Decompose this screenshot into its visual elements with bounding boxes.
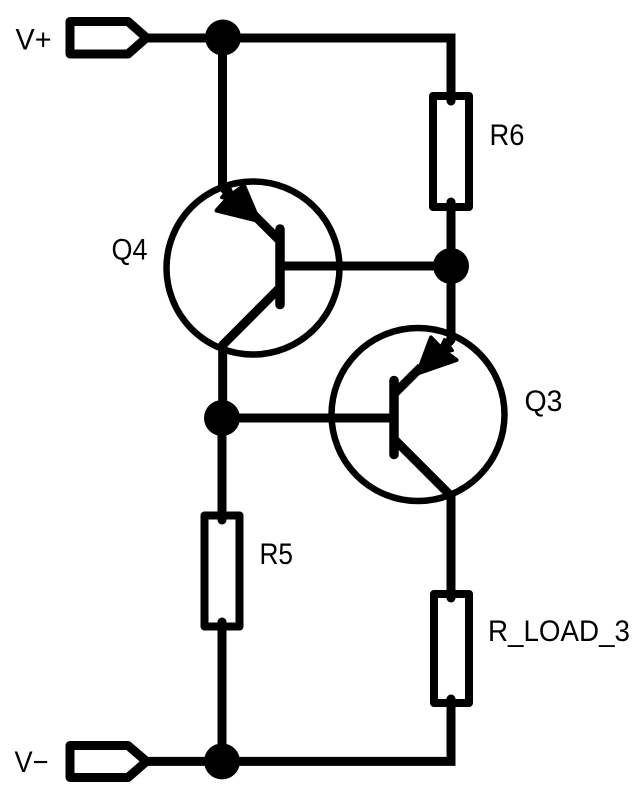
node left junction dot (204, 400, 240, 436)
wire left junction down to R5 (218, 418, 227, 520)
resistor R_LOAD_3 (434, 594, 469, 703)
transistor Q4 (167, 182, 340, 419)
wire R6 bottom to mid junction (447, 202, 456, 266)
wire Q4 base to mid junction (280, 262, 451, 271)
wire V- flag to bottom junction (147, 757, 223, 766)
wire top rail to R6 (223, 38, 451, 101)
svg-text:R_LOAD_3: R_LOAD_3 (488, 615, 630, 648)
wire R5 bottom to bottom junction (218, 622, 227, 761)
wire left junction to Q3 base (222, 414, 394, 423)
wire bottom rail to R_LOAD_3 (222, 698, 451, 761)
svg-text:Q3: Q3 (525, 385, 563, 418)
transistor Q3 (332, 328, 505, 594)
wire Q3 emitter feed (447, 266, 456, 340)
resistor R6 (433, 96, 469, 207)
wire V+ flag to top junction (147, 34, 227, 43)
svg-text:R5: R5 (260, 538, 294, 571)
node top junction dot (205, 20, 241, 56)
svg-text:R6: R6 (490, 119, 525, 152)
resistor R5 (205, 516, 240, 627)
wire Q4 emitter feed (218, 38, 227, 187)
terminal V- (70, 746, 147, 778)
terminal V+ (70, 22, 147, 55)
svg-text:V+: V+ (16, 24, 52, 57)
node bottom junction dot (204, 743, 240, 779)
svg-text:V−: V− (15, 746, 49, 779)
svg-text:Q4: Q4 (112, 234, 148, 267)
node mid-right junction dot (433, 248, 469, 284)
